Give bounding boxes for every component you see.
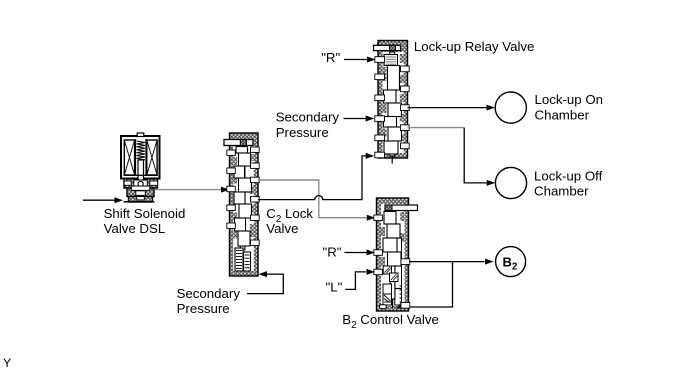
- svg-text:Pressure: Pressure: [276, 125, 329, 140]
- svg-text:Secondary: Secondary: [177, 286, 241, 301]
- svg-text:Lock-up On: Lock-up On: [535, 92, 604, 107]
- svg-text:Secondary: Secondary: [276, 110, 340, 125]
- svg-text:Valve: Valve: [266, 221, 298, 236]
- svg-text:Chamber: Chamber: [534, 184, 589, 199]
- svg-text:Chamber: Chamber: [535, 107, 590, 122]
- svg-text:Pressure: Pressure: [177, 301, 230, 316]
- svg-text:Lock-up Off: Lock-up Off: [534, 168, 603, 183]
- svg-text:Shift Solenoid: Shift Solenoid: [104, 206, 186, 221]
- svg-text:"R": "R": [321, 50, 340, 65]
- svg-text:Valve DSL: Valve DSL: [104, 221, 166, 236]
- svg-text:"R": "R": [323, 245, 342, 260]
- svg-text:"L": "L": [326, 280, 343, 295]
- svg-text:Y: Y: [3, 356, 11, 370]
- svg-text:Lock-up Relay Valve: Lock-up Relay Valve: [414, 39, 535, 54]
